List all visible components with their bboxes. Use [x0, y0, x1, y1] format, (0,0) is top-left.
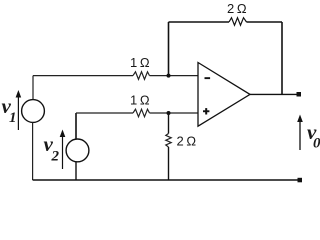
wire feedback top horizontal left segment: [169, 21, 230, 23]
wire inverting input horizontal left: [33, 75, 133, 77]
svg-text:2: 2: [51, 149, 60, 165]
wire noninverting input horizontal left: [76, 112, 133, 114]
resistor 2 ohm to ground zigzag: [166, 134, 171, 148]
svg-text:0: 0: [313, 136, 320, 152]
voltage source V2 circle: [66, 139, 89, 162]
node junction dot inverting/feedback: [167, 74, 171, 78]
wire feedback top horizontal right segment: [247, 21, 283, 23]
arrow v2 reference: [62, 132, 64, 170]
resistor 1 ohm inverting zigzag: [133, 72, 150, 80]
svg-text:2 Ω: 2 Ω: [227, 1, 247, 16]
wire noninverting input: v2 corner vertical: [75, 113, 77, 139]
node junction dot noninverting/ground resistor: [167, 111, 171, 115]
svg-text:2 Ω: 2 Ω: [177, 134, 197, 149]
wire v1 bottom to rail: [32, 122, 34, 180]
voltage source V1 circle: [22, 100, 45, 123]
resistor 2 ohm to ground: top wire: [168, 113, 170, 134]
svg-text:1 Ω: 1 Ω: [130, 55, 150, 70]
wire v2 bottom to rail: [75, 162, 77, 180]
op-amp U1 triangle: [198, 63, 250, 127]
wire inverting input: v1 corner vertical: [32, 76, 34, 100]
op-amp minus sign: [205, 77, 211, 79]
wire noninverting input horizontal right: [150, 112, 199, 114]
resistor 2 ohm feedback zigzag: [229, 18, 247, 26]
wire op-amp output: [250, 93, 298, 95]
resistor 2 ohm to ground: bottom wire: [168, 147, 170, 180]
wire inverting input horizontal right: [150, 75, 199, 77]
wire feedback top-left vertical: [168, 22, 170, 76]
svg-text:1 Ω: 1 Ω: [130, 93, 150, 108]
node bottom-right terminal dot: [298, 178, 303, 183]
node output terminal dot: [297, 92, 302, 97]
wire feedback right vertical: [281, 22, 283, 94]
op-amp plus sign: [203, 108, 209, 114]
resistor 1 ohm noninverting zigzag: [133, 109, 150, 117]
wire bottom rail: [33, 179, 299, 181]
arrow v0 output reference: [299, 117, 301, 150]
arrow v1 reference: [17, 92, 19, 130]
svg-text:1: 1: [9, 110, 17, 126]
